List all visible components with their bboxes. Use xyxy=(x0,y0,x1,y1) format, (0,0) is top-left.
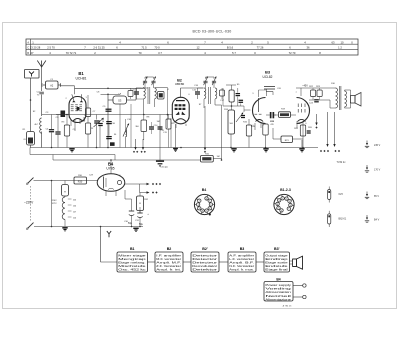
bus end plus marks xyxy=(320,150,322,152)
wire right vertical xyxy=(221,105,223,160)
svg-text:~45V: ~45V xyxy=(302,84,308,87)
legend lamp 2 xyxy=(328,214,331,224)
svg-text:150: 150 xyxy=(73,206,76,208)
svg-text:Z.F. Verstarker: Z.F. Verstarker xyxy=(156,264,181,268)
volume pot box R15 xyxy=(201,156,214,163)
svg-text:A 784 26: A 784 26 xyxy=(283,305,292,308)
IFT2 wires xyxy=(203,99,205,108)
wire det junction xyxy=(223,105,244,107)
junction dots xyxy=(107,147,109,149)
external antenna terminal box Y xyxy=(25,70,40,79)
resistor R22 R23 pair xyxy=(311,90,316,97)
pickup Y symbol xyxy=(107,231,111,237)
ground g3 xyxy=(231,148,236,150)
resistor R30 xyxy=(74,177,87,184)
ground g2 xyxy=(156,160,164,162)
svg-text:6: 6 xyxy=(84,115,85,117)
antenna A1 xyxy=(37,61,46,68)
svg-text:BCD 03-d00-UCL-030: BCD 03-d00-UCL-030 xyxy=(193,30,232,34)
coupling cap C20 stack xyxy=(264,86,275,88)
svg-text:2 5 70: 2 5 70 xyxy=(47,46,55,50)
svg-text:50µ: 50µ xyxy=(139,224,144,226)
IFT2 core xyxy=(208,87,210,104)
extra cap left of IFT1 xyxy=(128,91,133,97)
svg-text:Endstufe: Endstufe xyxy=(265,264,288,268)
svg-text:Ampl. fr. int.: Ampl. fr. int. xyxy=(156,268,181,272)
resistor R7 dark box xyxy=(158,92,165,100)
svg-text:Etage melang.: Etage melang. xyxy=(118,261,146,265)
capacitor C18 xyxy=(239,99,244,101)
svg-text:220V: 220V xyxy=(51,200,57,202)
capacitor C6 xyxy=(106,121,112,123)
socket B1-2-3 circle xyxy=(274,194,294,214)
volume line arrow xyxy=(204,106,206,140)
legend arrows to B+ xyxy=(327,112,329,144)
IF resistor R14 xyxy=(229,90,234,102)
svg-text:6: 6 xyxy=(305,123,306,125)
svg-text:245 V: 245 V xyxy=(374,144,381,147)
legend symbol 1 xyxy=(366,141,368,145)
wire C30 top xyxy=(131,199,133,205)
svg-text:B2: B2 xyxy=(167,247,172,251)
wire osc box xyxy=(107,95,109,101)
ground g5 xyxy=(299,148,304,150)
svg-text:12: 12 xyxy=(197,46,200,50)
svg-text:7: 7 xyxy=(182,123,183,125)
svg-text:Ampli. B.F.: Ampli. B.F. xyxy=(229,261,254,265)
sub bus 1 xyxy=(30,154,115,156)
tube B2 UBF80 envelope xyxy=(172,97,189,124)
svg-text:1M: 1M xyxy=(217,156,220,158)
tube B3 triode pins xyxy=(254,123,256,130)
svg-text:C15 4µ5: C15 4µ5 xyxy=(160,167,168,169)
filter resistor R32 xyxy=(137,196,144,211)
wire pentode plate xyxy=(300,88,302,96)
svg-text:Mischstufe: Mischstufe xyxy=(118,264,147,268)
svg-text:27: 27 xyxy=(31,51,34,55)
svg-text:63: 63 xyxy=(332,40,335,44)
svg-text:S3: S3 xyxy=(118,99,122,103)
svg-text:71 5: 71 5 xyxy=(141,46,147,50)
detector resistor xyxy=(166,119,171,129)
tube B3 pentode envelope xyxy=(297,97,310,123)
svg-text:77 26: 77 26 xyxy=(257,46,264,50)
svg-text:Etage sortie: Etage sortie xyxy=(265,261,288,265)
selector taps xyxy=(68,198,72,200)
svg-text:Detector: Detector xyxy=(192,257,217,261)
svg-text:Detecteur: Detecteur xyxy=(192,261,217,265)
capacitor C4 xyxy=(49,129,54,131)
svg-text:B3': B3' xyxy=(274,247,280,251)
resistor R16 xyxy=(246,125,251,136)
output transformer core xyxy=(338,86,340,110)
svg-text:85 V: 85 V xyxy=(374,195,379,198)
svg-text:UBF80: UBF80 xyxy=(175,82,185,86)
IFT2 cap C16 xyxy=(195,91,200,93)
wire coil to bus xyxy=(41,132,43,148)
svg-text:A.F. amplifier: A.F. amplifier xyxy=(229,253,254,257)
svg-text:~220V: ~220V xyxy=(24,201,34,205)
capacitor C17b xyxy=(236,93,241,95)
svg-text:B4 V: B4 V xyxy=(374,219,380,222)
svg-text:3 7: 3 7 xyxy=(158,51,162,55)
svg-text:127V: 127V xyxy=(51,203,57,205)
resistor R20 xyxy=(300,125,305,136)
tube B1 pins xyxy=(70,120,72,127)
svg-text:9: 9 xyxy=(76,122,77,124)
padder trimmer C10 xyxy=(126,130,127,137)
svg-text:Etage final: Etage final xyxy=(265,268,288,272)
output transformer S10 primary xyxy=(336,88,338,108)
svg-text:72 70: 72 70 xyxy=(289,51,296,55)
wire B4 cathode out xyxy=(125,183,147,185)
wire triode grid xyxy=(244,109,251,111)
svg-text:3: 3 xyxy=(298,123,299,125)
svg-text:Ampl. fr. mus.: Ampl. fr. mus. xyxy=(229,268,254,272)
svg-text:110: 110 xyxy=(73,218,76,220)
svg-text:Detektor: Detektor xyxy=(192,268,217,272)
svg-text:UY85: UY85 xyxy=(106,167,114,171)
tube B3 triode envelope xyxy=(252,97,265,123)
detector parts xyxy=(159,115,161,161)
capacitor C25 blob xyxy=(110,142,115,146)
socket B4 circle xyxy=(194,194,214,214)
svg-text:B3: B3 xyxy=(265,70,271,75)
mains switch SK1 pole a xyxy=(28,178,34,184)
wire osc vertical xyxy=(107,100,109,140)
svg-text:Alimentation: Alimentation xyxy=(265,290,291,294)
svg-text:127: 127 xyxy=(73,212,76,214)
B+ arrow near pentode xyxy=(316,114,318,123)
IFT2 secondary S7 xyxy=(215,88,217,99)
resistor R5 box xyxy=(86,123,91,134)
svg-text:B3: B3 xyxy=(240,247,245,251)
svg-text:9: 9 xyxy=(262,125,263,127)
oscillator coil box S3 xyxy=(113,96,127,104)
capacitor C3 dark blob xyxy=(61,111,66,118)
svg-text:70 0: 70 0 xyxy=(154,46,160,50)
wire C1 to grid xyxy=(61,85,75,87)
legend symbol 2 xyxy=(366,165,368,169)
wire from Y box down xyxy=(30,78,32,132)
capacitor C5 xyxy=(55,131,60,133)
svg-text:2 6 31 25: 2 6 31 25 xyxy=(93,46,105,50)
svg-text:500: 500 xyxy=(230,123,233,125)
B+ marks main xyxy=(152,183,154,185)
svg-text:Netzteil: Netzteil xyxy=(265,294,292,298)
svg-text:70 72 71: 70 72 71 xyxy=(66,51,77,55)
svg-text:Mixer stage: Mixer stage xyxy=(118,253,146,257)
mains vertical xyxy=(51,181,53,227)
IFT1 primary S4 xyxy=(144,88,146,99)
capacitor C14 xyxy=(149,126,154,128)
svg-text:L.F. versterker: L.F. versterker xyxy=(229,257,254,261)
chassis ground right xyxy=(301,140,303,148)
svg-text:50µ: 50µ xyxy=(128,223,133,225)
wire into block row xyxy=(100,227,102,263)
block connectors xyxy=(148,261,156,263)
svg-text:70: 70 xyxy=(139,51,142,55)
IFT2 trimmer pair xyxy=(203,80,207,82)
svg-text:I.F. amplifier: I.F. amplifier xyxy=(156,253,181,257)
grid wire bus xyxy=(42,114,168,116)
ground power xyxy=(62,227,67,229)
legend symbol 3 xyxy=(366,192,368,196)
tube B4 UY85 rectifier xyxy=(97,174,125,192)
component location table xyxy=(26,39,358,55)
svg-text:Ampli. M.F.: Ampli. M.F. xyxy=(156,261,181,265)
svg-text:TV32 2x: TV32 2x xyxy=(337,161,347,164)
svg-text:6V3: 6V3 xyxy=(339,193,344,196)
ground bus xyxy=(30,147,318,149)
svg-text:B4: B4 xyxy=(276,277,280,281)
mains wire bottom xyxy=(34,226,143,228)
resistor R4 box xyxy=(86,108,91,117)
switch link dashed xyxy=(30,186,32,221)
tube B2 pins xyxy=(175,124,177,128)
coupling cap C21 xyxy=(270,112,272,118)
mains terminals xyxy=(293,285,303,287)
block B4 power supply xyxy=(264,282,293,302)
resistor R3 xyxy=(64,125,69,136)
svg-text:Detector: Detector xyxy=(192,253,217,257)
svg-text:Power supply: Power supply xyxy=(265,283,292,287)
osc trimmers C7 C8 xyxy=(94,120,100,122)
legend lamp 1 xyxy=(328,190,331,200)
svg-text:N.F. Verstarker: N.F. Verstarker xyxy=(229,264,254,268)
svg-text:B1: B1 xyxy=(130,247,135,251)
svg-text:Demodulator: Demodulator xyxy=(192,264,217,268)
svg-text:M.F. versterker: M.F. versterker xyxy=(156,257,181,261)
resistor R17 xyxy=(263,124,268,135)
svg-text:B62-01: B62-01 xyxy=(339,218,347,221)
tube B4 heater pins xyxy=(105,191,107,196)
IFT1 cap C11 xyxy=(134,91,139,93)
wire B1 anode top bus xyxy=(74,88,76,94)
ground g4 xyxy=(263,148,268,150)
speaker block icon xyxy=(293,259,297,267)
svg-text:5 7: 5 7 xyxy=(232,51,236,55)
dropper resistor R31 xyxy=(62,185,69,197)
svg-text:Output stage: Output stage xyxy=(265,253,288,257)
svg-text:220: 220 xyxy=(73,200,76,202)
wire B2 plate xyxy=(181,87,204,89)
ground B2 cathode xyxy=(173,148,178,150)
resistor R8 xyxy=(141,120,147,132)
svg-text:170 V: 170 V xyxy=(374,169,381,172)
legend symbol 4 xyxy=(366,215,368,219)
ferrite rod box S1 xyxy=(27,132,35,146)
svg-text:Eindtrap: Eindtrap xyxy=(265,257,289,261)
svg-text:B2': B2' xyxy=(202,247,208,251)
svg-text:10: 10 xyxy=(341,40,344,44)
speaker main xyxy=(351,96,356,104)
sub bus 2 xyxy=(53,159,201,161)
AVC arrow 2 xyxy=(142,139,144,147)
wire B1 lower xyxy=(119,104,121,148)
IFT1 wires xyxy=(141,87,148,89)
svg-text:2: 2 xyxy=(68,117,69,119)
svg-text:R30: R30 xyxy=(78,180,83,183)
extra cap right of IFT2 xyxy=(220,90,225,96)
ground g1 xyxy=(69,148,74,150)
svg-text:Mengtrap: Mengtrap xyxy=(118,257,147,261)
IFT2 primary S6 xyxy=(204,88,206,99)
mains switch SK1 pole b xyxy=(28,223,34,229)
ground electrolytics xyxy=(133,227,138,229)
svg-text:1M: 1M xyxy=(157,121,160,123)
tube B3 pentode pins xyxy=(296,121,298,128)
pot 500K box xyxy=(228,110,235,134)
wires transformer xyxy=(309,87,336,89)
electrolytic C30 xyxy=(131,205,133,211)
svg-text:1 2: 1 2 xyxy=(338,46,342,50)
feedback box R21 xyxy=(281,136,293,143)
svg-text:Osc. 452 kc: Osc. 452 kc xyxy=(118,268,147,272)
AVC arrow 1 xyxy=(135,139,137,147)
svg-text:36: 36 xyxy=(307,46,310,50)
wire B4 tap xyxy=(139,184,141,193)
svg-text:23 20 28: 23 20 28 xyxy=(30,46,41,50)
svg-text:Alimentazione: Alimentazione xyxy=(265,297,291,301)
svg-text:B4: B4 xyxy=(202,188,207,192)
svg-text:Voeding: Voeding xyxy=(265,287,292,291)
svg-text:UCL82: UCL82 xyxy=(263,75,273,79)
IFT1 secondary S5 xyxy=(155,88,157,99)
wire B4 anode up xyxy=(110,160,112,174)
wire triode plate top xyxy=(258,90,260,97)
svg-text:B 5,6: B 5,6 xyxy=(227,46,234,50)
antenna coil S2 xyxy=(40,118,42,133)
capacitor C2 in antenna lead xyxy=(39,91,44,93)
svg-text:UCH81: UCH81 xyxy=(75,76,86,80)
wire antenna to coil xyxy=(41,95,43,117)
coupling resistor box R19 xyxy=(279,112,291,118)
output transformer secondary S11 xyxy=(345,91,347,107)
mains wire top xyxy=(34,180,98,182)
IFT1 core xyxy=(147,87,149,104)
antenna filter C1 box xyxy=(46,81,59,89)
svg-text:B1-2-3: B1-2-3 xyxy=(280,188,291,192)
IFT1 trimmer pair xyxy=(143,80,147,82)
voltage selector coil S1b xyxy=(62,197,65,219)
tube B1 UCH81 envelope xyxy=(69,97,86,123)
electrolytic C31 xyxy=(139,207,141,213)
svg-text:8: 8 xyxy=(188,118,189,120)
